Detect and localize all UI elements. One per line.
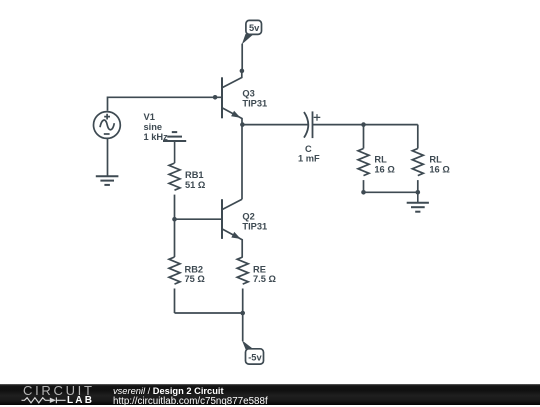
footer url line bbox=[113, 396, 268, 407]
svg-text:RB2: RB2 bbox=[185, 265, 204, 275]
node bus left bbox=[361, 190, 366, 195]
svg-text:TIP31: TIP31 bbox=[242, 221, 267, 231]
svg-text:75 Ω: 75 Ω bbox=[185, 274, 206, 284]
svg-text:RL: RL bbox=[374, 154, 387, 164]
svg-text:51 Ω: 51 Ω bbox=[185, 180, 206, 190]
svg-text:V1: V1 bbox=[144, 112, 155, 122]
wire junction down to RB2 bbox=[174, 219, 176, 257]
wire capacitor to RL corner bbox=[313, 124, 418, 126]
svg-text:Q2: Q2 bbox=[242, 212, 254, 222]
wire RB2 to bottom bus bbox=[174, 289, 176, 314]
wire RL2 to bus bbox=[417, 180, 419, 192]
svg-text:RE: RE bbox=[253, 265, 266, 275]
wire V1 top to Q3 base bbox=[108, 97, 222, 111]
label V1 sine 1 kHz bbox=[144, 112, 169, 142]
wire 5v to Q3 collector bbox=[241, 44, 243, 71]
svg-text:16 Ω: 16 Ω bbox=[374, 165, 395, 175]
wire corner down to RL2 bbox=[417, 125, 419, 149]
node cap-RL junction bbox=[361, 122, 366, 127]
svg-text:7.5 Ω: 7.5 Ω bbox=[253, 274, 277, 284]
svg-text:C: C bbox=[305, 144, 312, 154]
wire RL1 to bus bbox=[363, 180, 365, 192]
label Q3 TIP31 bbox=[242, 89, 267, 109]
wire RB1 to junction bbox=[174, 195, 176, 220]
resistor RL1 bbox=[358, 149, 369, 176]
svg-text:Q3: Q3 bbox=[242, 89, 254, 99]
node base of Q3 bbox=[213, 95, 218, 100]
wire Q3 emitter to Q2 collector bbox=[241, 125, 243, 200]
wire junction to Q2 base bbox=[175, 218, 222, 220]
node emitter Q3 bbox=[240, 122, 245, 127]
power flag -5v bbox=[242, 340, 264, 364]
label RB1 51 ohm bbox=[185, 170, 206, 190]
node bottom bus bbox=[240, 311, 245, 316]
footer credit line bbox=[113, 386, 224, 396]
node RB junction bbox=[172, 217, 177, 222]
label RL 16 ohm left bbox=[374, 154, 395, 174]
floating ground above RB1 bbox=[163, 132, 186, 163]
svg-text:TIP31: TIP31 bbox=[242, 98, 267, 108]
wire bus RL bottoms bbox=[364, 191, 418, 193]
svg-text:16 Ω: 16 Ω bbox=[429, 165, 450, 175]
label RL 16 ohm right bbox=[429, 154, 450, 174]
transistor Q2 bbox=[222, 199, 242, 257]
wire Q3 emitter to capacitor bbox=[242, 124, 307, 126]
resistor RB1 bbox=[169, 163, 180, 190]
label RB2 75 ohm bbox=[185, 265, 206, 285]
wire RE to bottom bus bbox=[242, 289, 244, 314]
svg-text:1 mF: 1 mF bbox=[298, 154, 320, 164]
label RE 7.5 ohm bbox=[253, 265, 277, 285]
power flag 5v bbox=[242, 20, 262, 44]
footer bar bbox=[0, 384, 540, 405]
svg-text:RL: RL bbox=[429, 154, 442, 164]
ground right bbox=[407, 192, 429, 211]
svg-text:RB1: RB1 bbox=[185, 170, 204, 180]
resistor RB2 bbox=[169, 257, 180, 284]
label Q2 TIP31 bbox=[242, 212, 267, 232]
wire bottom bus bbox=[175, 312, 243, 314]
label C 1 mF bbox=[298, 144, 320, 164]
wire V1 bottom to ground bbox=[107, 138, 109, 176]
wire junction down to RL1 bbox=[363, 125, 365, 149]
svg-text:LAB: LAB bbox=[67, 395, 94, 405]
svg-text:sine: sine bbox=[144, 122, 163, 132]
transistor Q3 bbox=[222, 71, 242, 125]
resistor RE bbox=[237, 257, 248, 284]
resistor RL2 bbox=[412, 149, 423, 176]
node collector Q3 bbox=[240, 69, 245, 74]
svg-text:-5v: -5v bbox=[248, 353, 262, 363]
wire bus to -5v flag bbox=[242, 313, 244, 341]
voltage source V1 bbox=[94, 112, 121, 139]
node bus right bbox=[416, 190, 421, 195]
svg-text:5v: 5v bbox=[249, 23, 260, 33]
capacitor C bbox=[304, 111, 320, 138]
ground under V1 bbox=[96, 176, 119, 185]
CircuitLab logo bbox=[0, 384, 100, 405]
